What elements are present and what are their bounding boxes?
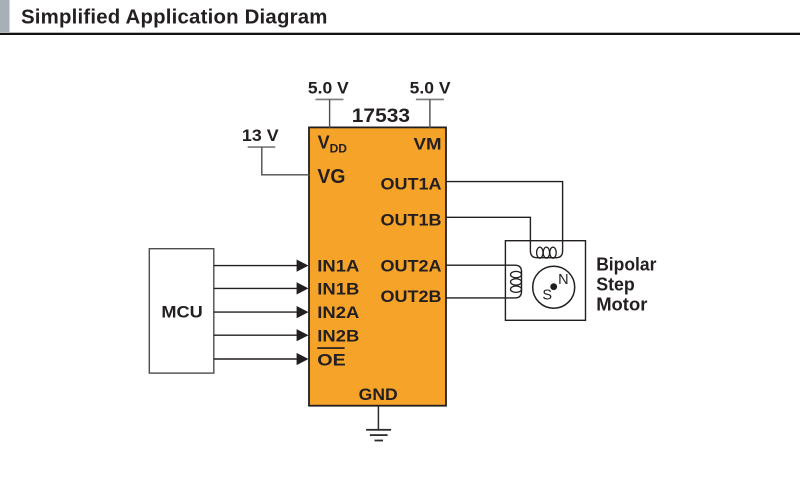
wire MCU to IN1B: [214, 287, 298, 289]
svg-text:OUT1B: OUT1B: [381, 211, 442, 230]
svg-text:Bipolar: Bipolar: [596, 253, 656, 274]
coil A loops: [537, 247, 557, 258]
arrowhead IN2B: [297, 329, 309, 341]
label Bipolar Step Motor: [596, 253, 656, 314]
wire OUT2B to coil B bottom: [446, 271, 522, 298]
pin OE overline: [317, 347, 344, 349]
svg-text:N: N: [558, 272, 568, 288]
supply +13V bar: [248, 146, 276, 148]
wire OUT1A to coil A right: [446, 182, 563, 258]
arrowhead IN2A: [297, 306, 309, 318]
svg-text:IN1A: IN1A: [317, 257, 359, 276]
wire MCU to IN2A: [214, 311, 298, 313]
svg-text:13 V: 13 V: [242, 126, 279, 145]
svg-text:IN2B: IN2B: [317, 327, 359, 346]
arrowhead OE: [297, 353, 309, 365]
MCU box: [149, 249, 214, 373]
wire OUT2A to coil B top: [446, 265, 522, 272]
svg-text:Simplified Application Diagram: Simplified Application Diagram: [21, 7, 328, 29]
wire OUT1B to coil A left: [446, 217, 557, 257]
svg-text:Motor: Motor: [596, 293, 647, 314]
arrowhead IN1B: [297, 282, 309, 294]
svg-text:5.0 V: 5.0 V: [308, 78, 349, 97]
svg-text:S: S: [542, 287, 552, 303]
motor box: [505, 241, 585, 321]
svg-text:IN2A: IN2A: [317, 303, 359, 322]
coil B loops: [511, 271, 522, 292]
svg-text:IN1B: IN1B: [317, 280, 359, 299]
svg-text:Step: Step: [596, 273, 635, 294]
supply +5.0V (VM) bar: [416, 99, 444, 101]
svg-text:OUT2A: OUT2A: [381, 257, 442, 276]
svg-text:VM: VM: [414, 134, 442, 153]
wire VDD supply: [329, 100, 331, 129]
svg-text:MCU: MCU: [161, 303, 202, 322]
ground symbol: [366, 429, 391, 442]
rotor circle: [533, 266, 575, 308]
svg-text:OUT2B: OUT2B: [381, 287, 442, 306]
svg-text:17533: 17533: [352, 105, 410, 127]
rotor dot: [550, 283, 557, 290]
arrowhead IN1A: [297, 260, 309, 272]
svg-text:GND: GND: [359, 385, 398, 404]
wire MCU to IN2B: [214, 334, 298, 336]
supply +5.0V (VDD) bar: [316, 99, 344, 101]
svg-text:VG: VG: [317, 166, 345, 188]
wire MCU to OE: [214, 358, 298, 360]
wire MCU to IN1A: [214, 265, 298, 267]
wire GND stem: [377, 406, 379, 430]
svg-text:5.0 V: 5.0 V: [410, 78, 451, 97]
header tab: [0, 0, 10, 32]
wire VM supply: [429, 100, 431, 129]
svg-text:OE: OE: [317, 350, 345, 369]
svg-text:OUT1A: OUT1A: [381, 174, 442, 193]
wire VG supply: [262, 147, 310, 175]
header rule: [0, 33, 800, 35]
IC U1 17533 body: [309, 127, 446, 405]
